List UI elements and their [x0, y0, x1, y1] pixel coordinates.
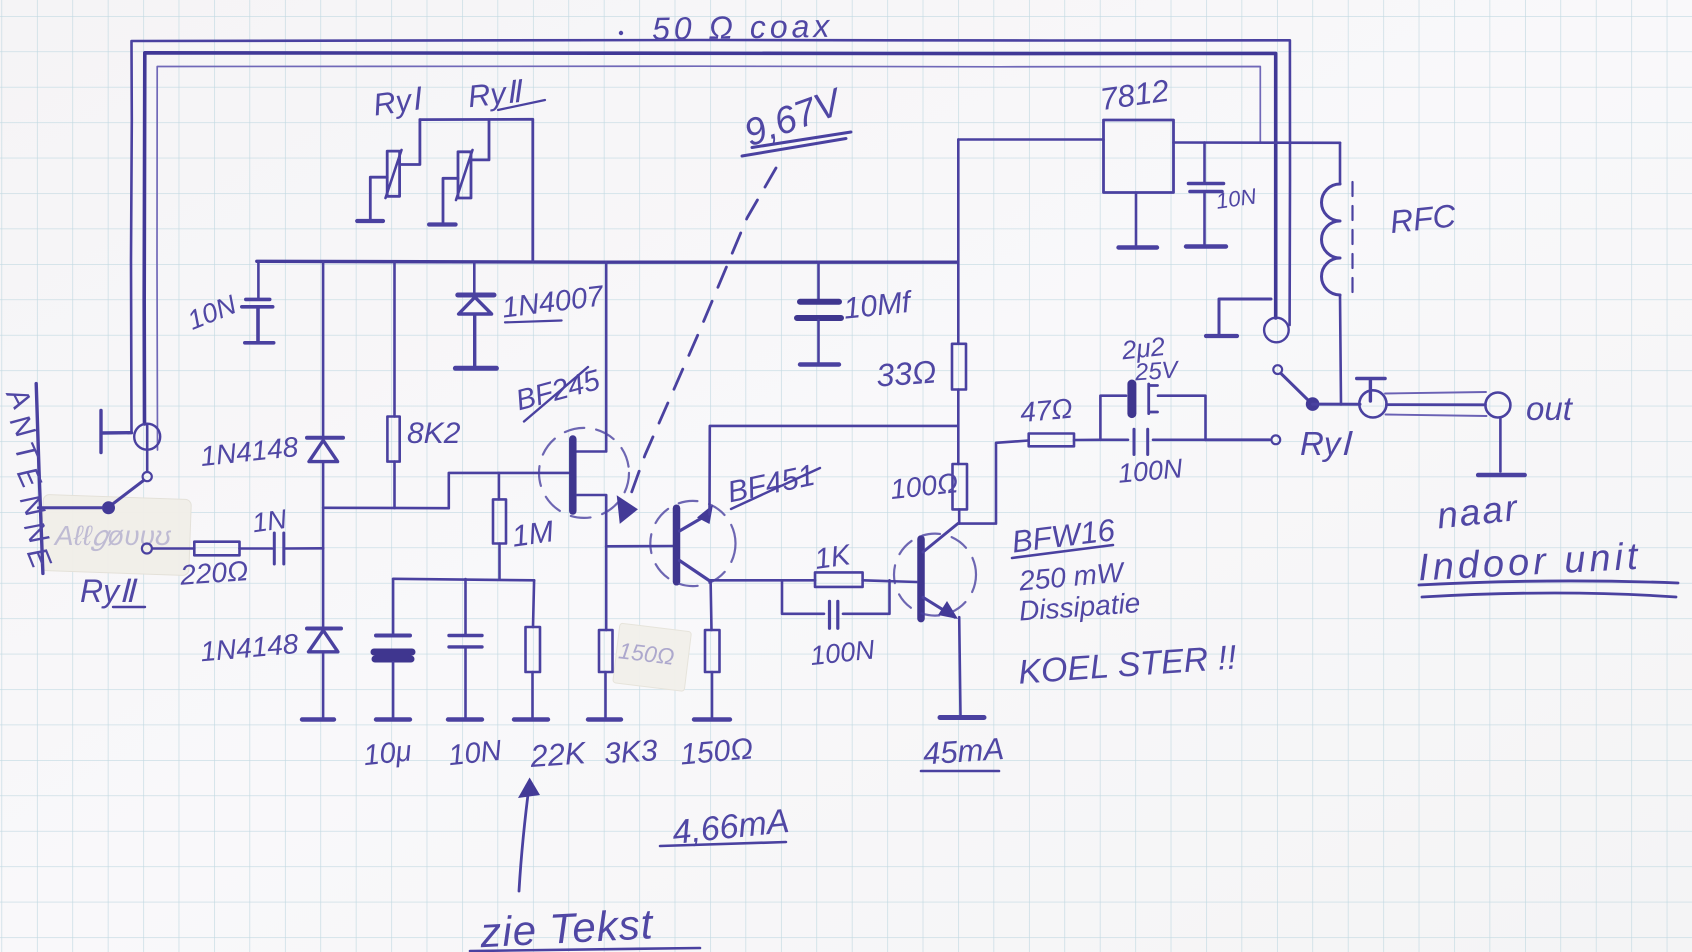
wire BF451 emitter node down — [709, 580, 713, 630]
wire 33R to 100R — [957, 390, 960, 465]
connector circle left of out — [1359, 390, 1386, 417]
label zie Tekst — [470, 900, 700, 952]
ground bar 1N4148 — [302, 717, 334, 721]
label RyII top — [466, 74, 545, 115]
label 1N4007 underlined — [500, 280, 607, 324]
relay coil RyI — [357, 120, 420, 221]
wire node vertical x323 upper — [322, 262, 325, 438]
wire coax shield outer (top + left + right) — [131, 40, 1290, 433]
arrow zie tekst — [518, 778, 540, 892]
transistor BFW16 dashed circle — [894, 534, 976, 616]
transistor BF245 dashed circle — [539, 428, 629, 518]
capacitor 100n left : wire from rail — [257, 262, 260, 299]
wire connector to switch pivot — [146, 424, 149, 471]
resistor 1K — [815, 572, 863, 587]
wire 47R to cap combo — [1074, 438, 1100, 441]
wire BFW16 emitter down — [959, 617, 960, 716]
svg-text:10μ: 10μ — [362, 735, 413, 772]
wire 7812 output left — [958, 138, 1103, 141]
capacitor 2u2 + 100N parallel combo — [1100, 384, 1205, 455]
wire 220R to 1N cap — [240, 547, 273, 550]
label BF451 underlined slash — [725, 459, 820, 510]
wire coax inner thin — [157, 66, 1260, 450]
wire 100R to collector node — [958, 509, 961, 523]
resistor 22K — [514, 580, 548, 719]
resistor 3K3 — [588, 546, 621, 719]
wire 7812 ground — [1135, 193, 1138, 246]
wire 7812 input right — [1174, 141, 1341, 144]
regulator 7812 box — [1104, 120, 1174, 193]
label 50 ohm coax — [619, 8, 834, 47]
dashed measure arrow 9,67V — [613, 168, 776, 526]
svg-text:25V: 25V — [1133, 356, 1180, 386]
ground bar BFW16 — [940, 715, 984, 720]
node antenna junction dot — [102, 501, 115, 514]
capacitor 10N right of 7812 — [1186, 143, 1226, 247]
wire BF451 top to feedback rail — [710, 426, 958, 515]
inductor RFC — [1322, 143, 1353, 405]
connector circle RyI side — [1264, 318, 1289, 343]
label ANTENNE rotated — [0, 381, 57, 574]
svg-text:47Ω: 47Ω — [1019, 393, 1074, 428]
wire dot to out circle — [1313, 403, 1360, 406]
wire combo to RyI circle — [1206, 438, 1270, 441]
svg-text:zie Tekst: zie Tekst — [478, 900, 656, 952]
label BFW16 underlined — [1010, 512, 1118, 559]
transistor BFW16 emitter lead with arrow — [923, 597, 955, 617]
node circle RyI coil contact — [1271, 435, 1280, 444]
capacitor 10u electrolytic — [374, 579, 412, 720]
wire antenna to node — [38, 506, 102, 509]
antenna connector circle — [134, 424, 160, 450]
capacitor 10N bottom — [448, 579, 482, 720]
connector circle out — [1485, 393, 1510, 418]
wire gate feed horizontal — [323, 473, 568, 508]
label BF245 underlined slash — [512, 364, 604, 421]
wire out ground — [1499, 418, 1502, 472]
wire node vertical x323 lower — [322, 548, 325, 627]
wire center to out — [1387, 403, 1486, 406]
label 9,67V underlined — [739, 80, 851, 156]
svg-text:RyⅡ: RyⅡ — [466, 74, 525, 115]
resistor 33R — [952, 344, 966, 390]
ground stub at connector — [1206, 299, 1271, 336]
svg-text:RyⅠ: RyⅠ — [1300, 425, 1353, 462]
transistor BF245 drain wire — [577, 262, 606, 452]
svg-text:1N: 1N — [250, 504, 289, 539]
resistor 100R — [953, 464, 968, 509]
svg-text:RyⅠ: RyⅠ — [371, 81, 425, 123]
node small circle below connector — [1273, 365, 1282, 374]
capacitor 1N plates — [274, 533, 284, 564]
transistor BF451 collector lead — [680, 561, 711, 582]
svg-text:10N: 10N — [447, 735, 503, 772]
transistor BF245 source lead — [577, 495, 606, 546]
diode 1N4148 upper — [307, 438, 343, 462]
transistor BFW16 collector lead — [923, 524, 958, 552]
capacitor 100n left lower lead + end bar — [245, 307, 274, 343]
label 45mA underlined — [921, 731, 1005, 772]
svg-text:3K3: 3K3 — [603, 734, 659, 771]
wire 1M lower — [498, 544, 501, 580]
wire BF451 node to 1K — [711, 579, 815, 582]
svg-text:220Ω: 220Ω — [178, 555, 249, 591]
wire diode to antenna node junction — [322, 462, 325, 549]
svg-text:out: out — [1526, 390, 1574, 427]
wire throw to 220R — [153, 547, 195, 550]
antenna mast line — [36, 384, 43, 574]
svg-text:50 Ω coax: 50 Ω coax — [652, 8, 834, 47]
wire 8K2 branch upper — [393, 262, 396, 417]
svg-text:1K: 1K — [813, 539, 854, 576]
diode 1N4007 — [455, 295, 496, 368]
arrowhead BF451 — [697, 505, 713, 525]
wire collector node loop to 47R — [959, 441, 1028, 524]
transistor BF451 dashed circle — [650, 501, 735, 586]
svg-text:1M: 1M — [510, 515, 556, 553]
wire relay top bus — [420, 119, 533, 261]
svg-text:RFC: RFC — [1388, 197, 1458, 240]
resistor 150R — [694, 630, 730, 720]
node dot RyI common — [1306, 397, 1320, 411]
svg-text:100N: 100N — [1117, 453, 1184, 489]
ground bar out — [1478, 473, 1524, 478]
wire 1N cap to node — [286, 547, 324, 550]
sticker tape over 150R area — [613, 623, 692, 691]
transistor BF245 channel bar — [569, 439, 577, 511]
wire 1K to BFW16 base — [863, 580, 917, 582]
diode 1N4148 lower — [307, 629, 341, 652]
svg-text:8K2: 8K2 — [407, 417, 461, 450]
coax lines to out — [1385, 392, 1487, 416]
svg-text:RyⅡ: RyⅡ — [80, 573, 138, 609]
node switch pivot small circle — [143, 472, 152, 481]
transistor BF451 emitter lead with arrow — [680, 516, 707, 532]
svg-text:22K: 22K — [528, 735, 588, 774]
capacitor 100n left plates — [242, 299, 273, 306]
label RyII left — [80, 573, 145, 609]
wire right supply vertical — [957, 140, 960, 344]
wire 8K2 lower — [393, 462, 396, 508]
ground bar 7812 — [1119, 245, 1158, 249]
switch arm RyII to antenna node — [112, 481, 144, 505]
wire rail top main — [257, 260, 958, 264]
svg-text:45mA: 45mA — [922, 731, 1005, 772]
svg-text:150Ω: 150Ω — [679, 732, 754, 771]
resistor 1M — [493, 499, 506, 543]
resistor 1M branch from gate wire — [498, 473, 501, 500]
wire bottom bias rail — [393, 579, 534, 581]
capacitor 100N parallel loop — [782, 580, 890, 628]
relay coil RyII — [429, 120, 489, 225]
wire coax shield middle thick — [144, 53, 1276, 424]
label naar Indoor unit — [1417, 487, 1678, 597]
transistor BF451 base bar — [673, 508, 681, 582]
label 4,66mA underlined — [660, 802, 791, 852]
antenna connector ground T-bar — [101, 411, 132, 453]
wire 1N4007 branch — [473, 262, 476, 294]
transistor BFW16 base bar — [917, 539, 925, 619]
resistor 8K2 — [387, 417, 399, 462]
wire FET source to BF451 base — [606, 545, 673, 548]
ground bar stub — [1206, 334, 1237, 338]
capacitor 10Mf — [797, 262, 841, 365]
node lower throw circle — [142, 544, 152, 554]
svg-text:33Ω: 33Ω — [875, 354, 937, 394]
svg-text:naar: naar — [1435, 487, 1521, 536]
switch arm RyI — [1281, 374, 1308, 401]
sticker tape ALIGEMEEN over antenna node — [41, 494, 192, 575]
resistor 47R — [1029, 434, 1074, 447]
resistor 220R — [194, 542, 239, 556]
relay fixed contact T — [1357, 379, 1385, 402]
arrowhead BFW16 emitter — [938, 601, 958, 619]
wire diode lower to ground — [322, 652, 325, 718]
